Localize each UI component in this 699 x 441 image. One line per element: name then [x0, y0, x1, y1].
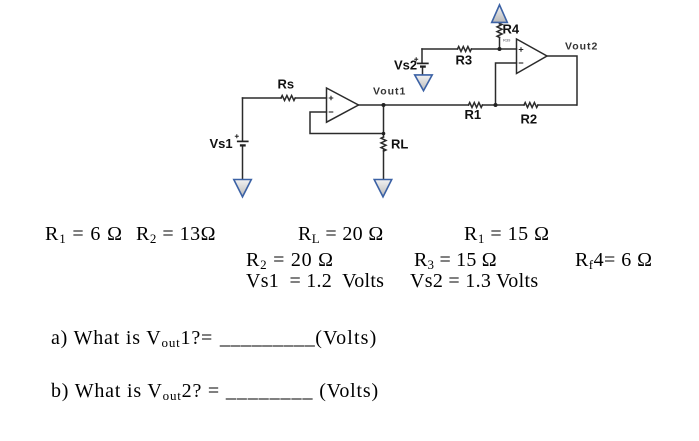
values line 3 — [246, 271, 384, 291]
ground under Vs2 — [415, 75, 433, 91]
resistor R4 — [497, 23, 502, 37]
wire R4 bottom — [499, 38, 501, 50]
wire U2 output Vout2 — [547, 56, 577, 105]
svg-text:Vs1: Vs1 — [210, 136, 233, 151]
wire feedback U1 — [310, 112, 384, 134]
op-amp U2 — [517, 39, 548, 74]
op-amp U2 minus sign — [519, 62, 524, 64]
svg-text:Vout2: Vout2 — [565, 41, 598, 53]
ground under Vs1 — [234, 180, 252, 197]
op-amp U2 plus sign — [519, 47, 524, 52]
wire Vs1 top vertical — [242, 98, 244, 140]
battery Vs1 — [235, 134, 249, 145]
battery Vs2 — [414, 57, 429, 66]
svg-text:RL: RL — [391, 137, 408, 152]
resistor RL — [381, 137, 386, 151]
svg-text:Vs2: Vs2 — [394, 58, 417, 73]
svg-text:Rs: Rs — [278, 77, 295, 92]
op-amp U1 plus sign — [329, 96, 334, 101]
question b — [51, 381, 379, 401]
junction node Vout1 — [382, 103, 386, 107]
values line 1 — [45, 224, 123, 244]
values line 2 — [246, 250, 334, 270]
svg-text:R39: R39 — [503, 38, 511, 43]
junction node feedback-RL — [382, 132, 386, 136]
svg-text:Vout1: Vout1 — [373, 86, 406, 98]
resistor R2 — [524, 103, 538, 108]
svg-text:R4: R4 — [503, 22, 520, 37]
wire RL to ground — [383, 150, 385, 179]
wire Vs2 bottom to ground — [422, 67, 424, 75]
wire R1R2 node up to U2 - input — [496, 63, 517, 105]
wire U1 output to R1 — [359, 104, 469, 106]
wire Vs1 to Rs — [243, 97, 282, 99]
junction node R1-R2 — [494, 103, 498, 107]
question a — [51, 328, 377, 348]
resistor Rs — [281, 96, 295, 101]
wire R2 to Vout2 column — [538, 104, 577, 106]
op-amp U1 minus sign — [329, 111, 334, 113]
wire R4 to power triangle — [499, 22, 501, 24]
wire Rs to op-amp U1 + input — [296, 97, 327, 99]
resistor R1 — [469, 103, 483, 108]
svg-text:R2: R2 — [521, 112, 538, 127]
circuit schematic — [0, 0, 699, 230]
wire R3 to U2 + input — [472, 48, 517, 50]
op-amp U1 — [327, 88, 359, 122]
wire Vout1 node down to RL — [383, 105, 385, 137]
junction node R4-R3 — [498, 47, 502, 51]
power arrow above R4 — [492, 5, 508, 23]
wire Vs2 corner vertical — [421, 49, 423, 63]
wire Vs2 to R3 — [422, 48, 458, 50]
svg-text:R3: R3 — [456, 53, 473, 68]
wire Vs1 bottom to ground — [242, 146, 244, 179]
resistor R3 — [458, 47, 472, 52]
svg-text:R1: R1 — [465, 107, 482, 122]
ground under RL — [374, 180, 392, 197]
wire R1 to R2 — [483, 104, 525, 106]
